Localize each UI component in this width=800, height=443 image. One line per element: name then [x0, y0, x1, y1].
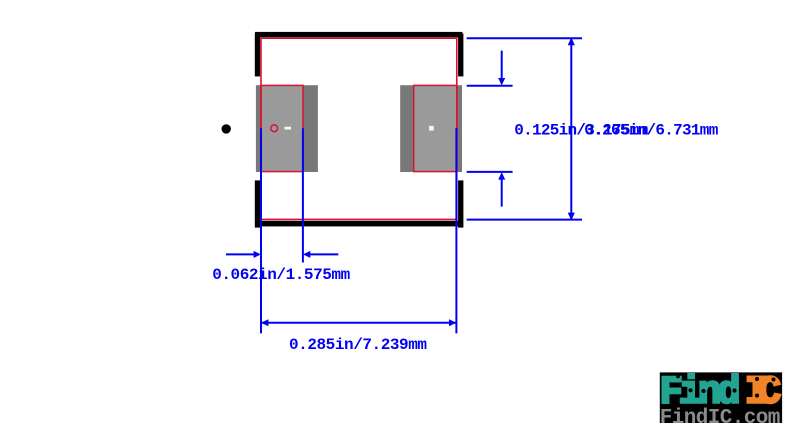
body outline bottom bar — [255, 221, 463, 227]
pad height lower arrow shaft — [501, 178, 503, 206]
svg-text:0.285in/7.239mm: 0.285in/7.239mm — [289, 336, 427, 354]
body outline right lower segment — [458, 180, 463, 227]
extension line pad top — [467, 85, 513, 87]
pad height upper arrow shaft — [501, 51, 503, 80]
extension line body bottom right — [467, 219, 582, 221]
extension line pad2 right — [455, 128, 457, 333]
pad 1 terminal overlay — [261, 85, 303, 172]
body outline top bar — [255, 32, 463, 37]
pad width left arrow shaft — [226, 253, 255, 255]
body outline left lower segment — [255, 180, 260, 227]
dimension lines (blue) — [226, 38, 582, 333]
pad 1 copper — [256, 85, 318, 172]
FindIC logo background — [660, 372, 782, 423]
extension line body top right — [467, 37, 582, 39]
pad 1 white label — [285, 127, 292, 130]
pad 2 copper — [400, 85, 462, 172]
arrowhead pad bottom (up) — [498, 172, 505, 180]
extension line pad1 right — [302, 128, 304, 262]
arrowhead height bottom — [568, 213, 575, 221]
arrowhead height top — [568, 37, 575, 45]
pad 2 white label — [429, 126, 434, 131]
FindIC logo circuit node dots — [676, 374, 776, 397]
arrowhead pad width left (right-pointing) — [254, 251, 261, 258]
extension line pad bottom — [467, 171, 513, 173]
extension line pad1 left — [260, 128, 262, 333]
pad width right arrow shaft — [309, 253, 338, 255]
arrowhead pad top (down) — [498, 78, 505, 86]
overall height dimension line — [570, 38, 572, 219]
courtyard red rectangle — [261, 38, 457, 219]
svg-text:0.062in/1.575mm: 0.062in/1.575mm — [212, 266, 350, 284]
svg-text:FindIC.com: FindIC.com — [660, 407, 781, 430]
arrowheads (blue) — [254, 37, 575, 326]
arrowhead overall width left — [261, 319, 268, 326]
pad 2 terminal overlay — [414, 85, 458, 172]
arrowhead overall width right — [449, 319, 456, 326]
body outline left upper segment — [255, 34, 260, 77]
pin-1 indicator dot — [222, 124, 231, 133]
arrowhead pad width right (left-pointing) — [303, 251, 310, 258]
pad 1 terminal red outline — [261, 85, 303, 171]
body outline right upper segment — [458, 34, 463, 77]
svg-text:0.265in/6.731mm: 0.265in/6.731mm — [584, 122, 718, 140]
pad 2 terminal red outline — [414, 85, 457, 171]
pad 1 red circle marker — [271, 125, 278, 132]
overall width dimension line — [261, 322, 456, 324]
